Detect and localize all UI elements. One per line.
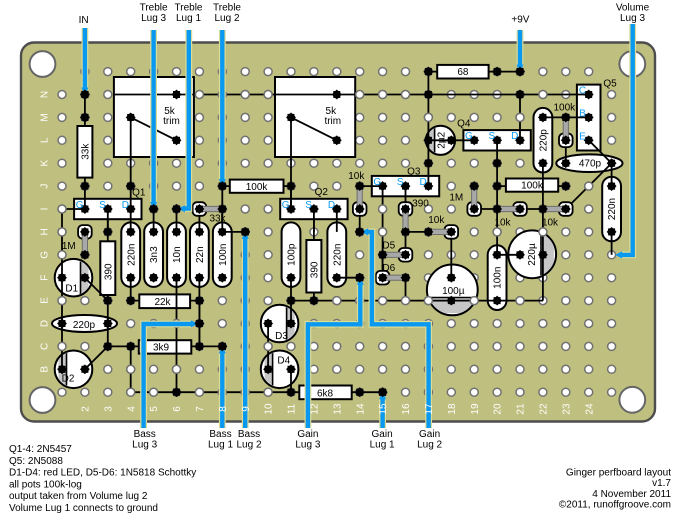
svg-text:68: 68 <box>457 67 469 78</box>
svg-text:4: 4 <box>126 406 137 412</box>
svg-text:Treble: Treble <box>213 3 241 14</box>
svg-text:IN: IN <box>79 15 89 26</box>
svg-text:J: J <box>39 184 50 189</box>
svg-text:D3: D3 <box>275 331 288 342</box>
svg-text:33k: 33k <box>209 214 226 225</box>
svg-text:9: 9 <box>241 406 252 412</box>
svg-text:D6: D6 <box>382 263 395 274</box>
wire 100k standing to 470p <box>565 140 567 163</box>
svg-text:24: 24 <box>584 403 595 415</box>
svg-text:33k: 33k <box>81 143 92 160</box>
mounting hole <box>619 51 645 77</box>
wire treble1 to 10n <box>176 209 178 232</box>
svg-text:trim: trim <box>324 116 341 127</box>
svg-text:all pots 100k-log: all pots 100k-log <box>9 479 82 490</box>
diode D5 standing <box>399 248 413 262</box>
LED D1 <box>55 259 93 297</box>
wire node to 3k9 <box>108 345 131 347</box>
resistor 390 vertical col3 <box>100 241 115 295</box>
wire Q3 source to 390 <box>405 186 407 209</box>
svg-text:D4: D4 <box>277 355 290 366</box>
svg-text:390: 390 <box>310 261 321 278</box>
wire 22k right col7 <box>198 301 200 347</box>
svg-text:3k9: 3k9 <box>153 342 170 353</box>
wire D6 junction <box>405 278 407 301</box>
wire node row 10 <box>291 300 543 302</box>
wire 33k box to 22n <box>198 216 200 232</box>
resistor 100k left <box>230 180 284 193</box>
svg-text:C: C <box>579 86 586 97</box>
svg-text:Lug 3: Lug 3 <box>132 439 157 450</box>
trimmer 5k trim 1 <box>114 77 194 157</box>
resistor 33k standing col7 <box>193 202 207 216</box>
transistor Q3 <box>372 176 439 196</box>
svg-text:17: 17 <box>424 403 435 415</box>
wire 33k to 100k <box>221 186 223 232</box>
ground wire col4 <box>130 346 132 392</box>
svg-text:220n: 220n <box>126 244 137 266</box>
resistor 10k standing col18 <box>445 225 459 239</box>
svg-text:Treble: Treble <box>140 3 168 14</box>
wire D4 to 6k8 <box>290 369 292 392</box>
svg-text:220n: 220n <box>607 198 618 220</box>
capacitor 220n col25 <box>602 177 621 242</box>
wire 100n to bass2 <box>222 231 245 233</box>
svg-text:B: B <box>39 366 50 373</box>
trimmer 1 wiper wire <box>130 117 132 209</box>
wire D5 D6 col15 <box>382 255 384 278</box>
svg-text:D: D <box>39 320 50 327</box>
ground wire col6 <box>176 278 178 393</box>
wire 10k to gain node <box>359 216 361 232</box>
svg-text:100k: 100k <box>246 182 269 193</box>
wire Bass Lug 2 <box>242 237 249 428</box>
wire 390 to 220p <box>107 301 109 347</box>
wire Gain Lug 3 <box>308 283 360 428</box>
svg-text:Q1-4: 2N5457: Q1-4: 2N5457 <box>9 444 72 455</box>
trimmer 2 wiper diagonal <box>291 117 337 140</box>
wire IN <box>82 28 89 90</box>
svg-text:F: F <box>39 275 50 281</box>
svg-text:D1: D1 <box>65 284 78 295</box>
svg-text:Q3: Q3 <box>407 166 421 177</box>
wire Q1 gate to col1 <box>62 208 85 210</box>
diode D6 standing <box>376 271 390 285</box>
resistor 10k standing col23 <box>559 202 573 216</box>
svg-text:390: 390 <box>103 263 114 280</box>
electrolytic 100u <box>427 265 478 316</box>
resistor 390 vertical col12 <box>306 240 321 293</box>
svg-text:D: D <box>122 200 129 211</box>
capacitor 470p horizontal <box>556 154 622 172</box>
svg-text:3n3: 3n3 <box>149 246 160 263</box>
svg-text:22k: 22k <box>154 297 171 308</box>
wire 10k to Q3 gate <box>360 185 383 187</box>
wire Volume Lug 3 <box>620 24 633 255</box>
svg-text:Volume: Volume <box>616 3 650 14</box>
svg-text:4 November 2011: 4 November 2011 <box>592 489 671 500</box>
svg-text:Q1: Q1 <box>132 187 146 198</box>
resistor 100k standing col23 <box>559 134 573 148</box>
wire Treble Lug 3 <box>150 30 157 204</box>
wire Q5 emitter diagonal <box>589 140 612 163</box>
capacitor 100p col11 <box>282 222 301 287</box>
svg-text:220µ: 220µ <box>527 243 538 266</box>
svg-text:Treble: Treble <box>175 3 203 14</box>
svg-text:output taken from Volume lug 2: output taken from Volume lug 2 <box>9 491 148 502</box>
wire 3k9 to bass1 <box>199 345 222 347</box>
resistor 22k <box>139 294 190 308</box>
capacitor 100n col20 <box>488 245 507 310</box>
svg-text:Lug 3: Lug 3 <box>141 13 166 24</box>
svg-text:Ginger perfboard layout: Ginger perfboard layout <box>566 468 671 479</box>
svg-text:390: 390 <box>412 199 429 210</box>
svg-text:220p: 220p <box>539 129 550 152</box>
svg-text:7: 7 <box>195 406 206 412</box>
transistor Q4 <box>463 130 530 150</box>
capacitor 220p col22 <box>534 108 553 173</box>
svg-text:E: E <box>579 132 586 143</box>
svg-text:L: L <box>39 137 50 143</box>
solder junction pads <box>57 67 616 397</box>
wire Q2 source to 390 <box>313 209 315 232</box>
svg-text:22: 22 <box>539 403 550 415</box>
svg-text:18: 18 <box>447 403 458 415</box>
svg-text:2: 2 <box>81 406 92 412</box>
svg-text:Lug 2: Lug 2 <box>236 439 261 450</box>
LED D4 <box>261 351 299 389</box>
svg-text:13: 13 <box>332 403 343 415</box>
svg-text:10: 10 <box>264 403 275 415</box>
trimmer 2 wiper wire <box>290 117 292 209</box>
svg-text:D: D <box>511 131 518 142</box>
svg-text:Lug 2: Lug 2 <box>417 439 442 450</box>
mounting hole <box>30 387 56 413</box>
svg-text:10k: 10k <box>348 171 365 182</box>
svg-text:10k: 10k <box>494 217 511 228</box>
wire 100n to 220u <box>497 254 520 256</box>
capacitor 220p horizontal <box>52 315 117 332</box>
resistor 1M standing col19 <box>467 202 481 216</box>
wire Bass Lug 3 <box>144 324 193 428</box>
svg-text:5: 5 <box>149 406 160 412</box>
wire +9V <box>517 30 524 67</box>
svg-text:G: G <box>39 251 50 259</box>
svg-text:100n: 100n <box>218 244 229 266</box>
wire 390 to D5 <box>405 232 407 255</box>
wire Q1 source to 390 <box>107 209 109 232</box>
svg-text:G: G <box>373 177 381 188</box>
wire Gain Lug 2 <box>365 232 429 428</box>
wire 220n col25 to volume <box>611 232 613 255</box>
svg-text:100p: 100p <box>287 243 298 266</box>
svg-text:M: M <box>39 113 50 121</box>
wire Q2 drain to 220n <box>336 209 338 232</box>
mounting hole <box>619 387 645 413</box>
capacitor 3n3 col5 <box>144 222 163 287</box>
perfboard <box>21 43 655 422</box>
holes over rails <box>58 91 593 397</box>
wire 2u2 to Q4 gate <box>428 139 474 141</box>
svg-text:S: S <box>397 177 404 188</box>
svg-text:H: H <box>39 228 50 235</box>
resistor 1M standing col2 <box>78 225 92 239</box>
svg-text:K: K <box>39 160 50 167</box>
wire 10k to 100u <box>450 239 452 278</box>
trimmer 1 wiper diagonal <box>131 117 177 140</box>
svg-text:6: 6 <box>172 406 183 412</box>
svg-text:S: S <box>99 200 106 211</box>
svg-text:10k: 10k <box>428 215 445 226</box>
svg-text:21: 21 <box>516 403 527 415</box>
capacitor 10n col6 <box>167 222 186 287</box>
svg-text:I: I <box>39 208 50 211</box>
svg-text:Lug 2: Lug 2 <box>214 13 239 24</box>
resistor 68 <box>437 65 488 79</box>
wire D1 diagonal <box>85 278 108 301</box>
capacitor 220n col13 <box>327 222 346 287</box>
resistor 100k right <box>506 179 558 192</box>
svg-text:Lug 1: Lug 1 <box>370 439 395 450</box>
electrolytic 2u2 <box>426 126 455 155</box>
capacitor 22n col7 <box>190 222 209 287</box>
svg-text:©2011, runoffgroove.com: ©2011, runoffgroove.com <box>559 500 671 511</box>
svg-text:Volume Lug 1 connects to groun: Volume Lug 1 connects to ground <box>9 503 158 514</box>
svg-text:Q4: Q4 <box>457 118 471 129</box>
transistor Q1 <box>74 199 141 219</box>
LED D2 <box>55 351 93 389</box>
svg-text:Q5: Q5 <box>603 78 617 89</box>
svg-text:G: G <box>282 200 290 211</box>
wire Treble Lug 2 <box>219 30 226 181</box>
LED D3 <box>261 305 299 343</box>
svg-text:11: 11 <box>287 403 298 414</box>
wire 22n bottom col7 <box>198 278 200 347</box>
svg-text:23: 23 <box>561 403 572 415</box>
wire 10k lead row7 <box>406 231 429 233</box>
wire Gain Lug 1 <box>379 397 386 428</box>
svg-text:v1.7: v1.7 <box>652 478 671 489</box>
wire leads under bodies <box>62 72 612 393</box>
wire 220p to D2 <box>61 324 63 370</box>
svg-text:22n: 22n <box>195 246 206 263</box>
svg-text:D: D <box>419 177 426 188</box>
perfboard holes <box>58 68 616 397</box>
svg-text:14: 14 <box>355 403 366 415</box>
wire D2 diagonal <box>85 346 108 369</box>
svg-text:2µ2: 2µ2 <box>437 131 448 148</box>
svg-text:10k: 10k <box>542 217 559 228</box>
svg-text:B: B <box>579 109 586 120</box>
wire 220n to gain node <box>337 277 360 279</box>
svg-text:E: E <box>39 297 50 304</box>
svg-text:19: 19 <box>470 403 481 415</box>
svg-text:Lug 1: Lug 1 <box>176 13 201 24</box>
svg-text:S: S <box>488 131 495 142</box>
svg-text:100µ: 100µ <box>442 286 465 297</box>
wire 220u column <box>542 163 544 300</box>
svg-text:6k8: 6k8 <box>317 388 334 399</box>
resistor 10k standing col21 <box>513 202 527 216</box>
svg-text:100k: 100k <box>553 102 576 113</box>
svg-text:220p: 220p <box>73 320 96 331</box>
wire 68 to rail <box>427 72 429 187</box>
trimmer 5k trim 2 <box>275 77 355 157</box>
svg-text:Q2: Q2 <box>315 187 329 198</box>
svg-text:10n: 10n <box>172 246 183 263</box>
wire 470p to 10k diagonal <box>566 163 612 209</box>
pads over wire tips <box>80 67 525 397</box>
wire Q1 drain to 220n <box>130 209 132 232</box>
svg-text:+9V: +9V <box>511 15 529 26</box>
svg-text:G: G <box>76 200 84 211</box>
svg-text:Lug 3: Lug 3 <box>295 439 320 450</box>
resistor 390 standing col16 <box>399 202 413 216</box>
wire Q2 gate to 100k <box>290 186 292 209</box>
svg-text:Q5: 2N5088: Q5: 2N5088 <box>9 456 63 467</box>
svg-text:100k: 100k <box>521 181 544 192</box>
svg-text:Lug 3: Lug 3 <box>620 13 645 24</box>
svg-text:20: 20 <box>493 403 504 415</box>
svg-text:1M: 1M <box>449 192 463 203</box>
svg-text:3: 3 <box>103 406 114 412</box>
svg-text:trim: trim <box>163 116 180 127</box>
wire 220n bottom to 22k <box>130 278 132 301</box>
svg-text:8: 8 <box>218 406 229 412</box>
wire 10k to 10k row6 <box>527 208 543 210</box>
svg-text:15: 15 <box>378 403 389 415</box>
resistor 33k vertical col2 <box>77 126 92 178</box>
power rail row N <box>114 94 589 96</box>
wire Treble Lug 1 <box>184 30 189 209</box>
svg-text:470p: 470p <box>579 159 602 170</box>
svg-text:D1-D4: red LED, D5-D6: 1N5818: D1-D4: red LED, D5-D6: 1N5818 Schottky <box>9 468 196 479</box>
svg-text:C: C <box>39 343 50 350</box>
wire col1 down to D1 <box>61 209 63 324</box>
svg-text:100n: 100n <box>493 267 504 289</box>
wire 33k to Q1 gate <box>84 186 86 209</box>
svg-text:16: 16 <box>401 403 412 415</box>
svg-text:D5: D5 <box>382 241 395 252</box>
electrolytic 220u <box>508 230 556 278</box>
resistor 3k9 <box>139 340 192 353</box>
svg-text:D2: D2 <box>62 374 75 385</box>
resistor 10k standing col14 <box>353 202 367 216</box>
svg-text:220n: 220n <box>332 244 343 266</box>
resistor 6k8 <box>299 386 351 400</box>
svg-text:Lug 1: Lug 1 <box>208 439 233 450</box>
wire 1M to 10k row6 <box>481 208 497 210</box>
wire Bass Lug 1 <box>219 351 226 428</box>
svg-text:G: G <box>465 131 473 142</box>
transistor Q2 <box>280 199 347 219</box>
wire treble3 to 3n3 <box>153 209 155 232</box>
capacitor 220n col4 <box>121 222 140 287</box>
svg-text:1M: 1M <box>62 241 76 252</box>
wire 470p to 220n col25 <box>611 163 613 186</box>
svg-text:N: N <box>39 91 50 98</box>
wire rail to Q4 drain <box>519 95 521 141</box>
wire 100p to D3 <box>290 278 292 324</box>
svg-text:S: S <box>305 200 312 211</box>
mounting hole <box>30 51 56 77</box>
transistor Q5 <box>577 85 601 151</box>
wire D3 D4 left pins <box>267 324 269 370</box>
wire Q3 gate column <box>382 186 384 278</box>
svg-text:D: D <box>328 200 335 211</box>
wire 6k8 to gain1 <box>360 391 383 393</box>
svg-text:12: 12 <box>310 403 321 415</box>
capacitor 100n col8 <box>213 222 232 287</box>
wire Q4 source column <box>496 140 498 255</box>
wire B row to Q5 base <box>543 116 589 118</box>
ground rail row A <box>131 391 291 393</box>
